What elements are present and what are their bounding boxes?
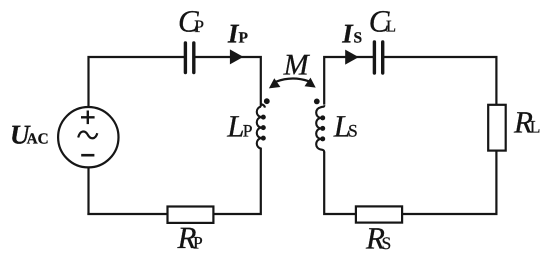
LS coil knot loops xyxy=(320,115,325,141)
svg-text:I: I xyxy=(341,18,354,48)
M arc left arrowhead xyxy=(269,78,281,88)
svg-text:P: P xyxy=(194,16,204,36)
inductor LS coil with entry/exit hooks xyxy=(316,105,324,152)
svg-text:M: M xyxy=(283,48,311,81)
resistor RL box xyxy=(488,105,506,151)
current arrow IP xyxy=(230,49,244,64)
wire: RP to bottom-right corner of left loop xyxy=(213,148,261,214)
wire: left vertical below source xyxy=(87,167,89,215)
capacitor CL plates xyxy=(374,42,382,73)
svg-text:L: L xyxy=(226,108,244,143)
svg-text:L: L xyxy=(386,17,396,36)
minus symbol xyxy=(81,154,94,157)
sine symbol xyxy=(78,131,97,138)
svg-text:P: P xyxy=(193,232,203,252)
current arrow IS xyxy=(345,50,359,65)
AC source circle xyxy=(58,107,118,167)
LP coil knot loops xyxy=(261,115,266,141)
svg-text:S: S xyxy=(354,29,363,46)
svg-text:S: S xyxy=(348,121,358,141)
polarity dot of LP xyxy=(264,98,270,104)
capacitor CP plates xyxy=(185,43,193,73)
wire: left loop top-left corner xyxy=(89,57,185,107)
polarity dot of LS xyxy=(314,99,320,105)
mutual inductance arc M xyxy=(276,78,308,81)
wire: RS to bottom-right corner of right loop xyxy=(402,151,497,214)
resistor RP box xyxy=(168,207,214,223)
wire: CL to top-right corner of right loop xyxy=(384,57,497,105)
svg-text:P: P xyxy=(239,29,249,46)
inductor LP coil entry hook xyxy=(261,104,265,107)
resistor RS box xyxy=(356,206,402,222)
plus symbol xyxy=(81,111,95,125)
svg-text:AC: AC xyxy=(27,131,49,148)
wire: below LS coil to bottom and RS xyxy=(324,152,356,214)
svg-text:L: L xyxy=(530,117,541,137)
svg-text:P: P xyxy=(243,121,253,141)
svg-text:S: S xyxy=(382,233,392,253)
wire: CP to top-right corner of left loop xyxy=(195,57,261,107)
wire: bottom-left to resistor RP xyxy=(87,213,168,215)
M arc right arrowhead xyxy=(305,78,316,88)
inductor LP coil xyxy=(257,107,261,149)
wire: right loop top-left corner down to LS coil xyxy=(324,57,373,105)
